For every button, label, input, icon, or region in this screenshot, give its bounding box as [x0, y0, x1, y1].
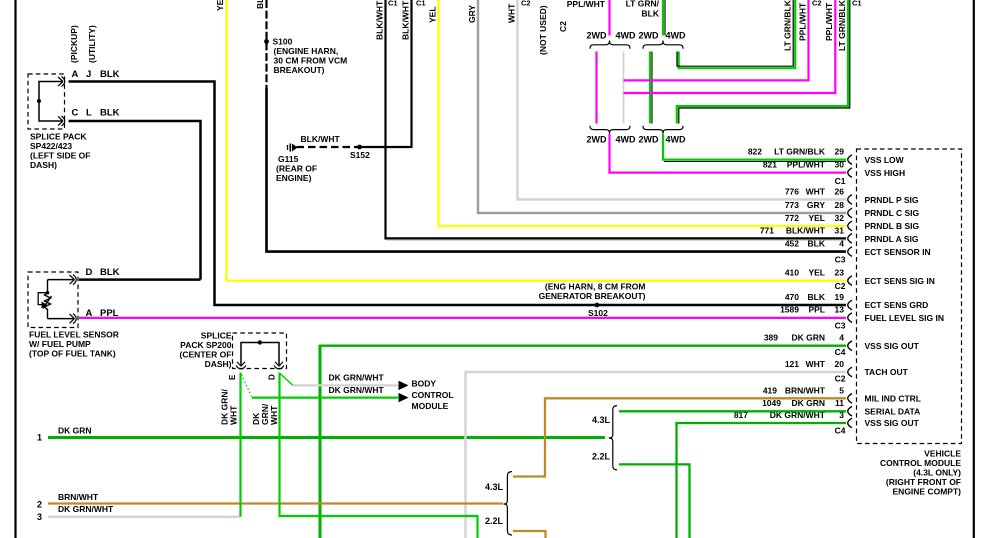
svg-text:J: J: [86, 69, 91, 80]
svg-text:4WD: 4WD: [616, 31, 637, 41]
wire BRN/WHT row 2: [48, 502, 503, 504]
wire BLK fuel D: [79, 278, 201, 281]
wire LT GRN/BLK 4WD lower elbow: [677, 0, 848, 124]
svg-text:4: 4: [839, 333, 844, 343]
svg-text:LT GRN/BLK: LT GRN/BLK: [774, 147, 826, 157]
svg-text:E: E: [228, 374, 237, 380]
svg-text:DK GRN: DK GRN: [791, 333, 825, 343]
arrow to BCM 1: [399, 381, 409, 390]
svg-text:4.3L: 4.3L: [592, 415, 611, 425]
wire BRN/WHT 2.2L branch: [513, 531, 546, 538]
pin 23 connector arc: [848, 276, 852, 286]
svg-text:470: 470: [785, 292, 799, 302]
svg-text:GRY: GRY: [467, 5, 477, 23]
svg-text:YEL: YEL: [215, 0, 225, 11]
svg-text:BLK: BLK: [255, 0, 265, 9]
svg-text:(UTILITY): (UTILITY): [87, 25, 97, 63]
wire PPL/WHT to pin 30: [610, 134, 847, 173]
svg-text:PPL/WHT: PPL/WHT: [798, 2, 808, 41]
svg-text:BLK: BLK: [808, 292, 826, 302]
svg-text:(TOP OF FUEL TANK): (TOP OF FUEL TANK): [29, 349, 116, 359]
wire PPL/WHT 2WD vertical: [595, 52, 597, 124]
svg-text:LT GRN/: LT GRN/: [626, 0, 660, 9]
brace 4.3L/2.2L left: [504, 472, 512, 536]
wire BRN/WHT to pin 5 MIL: [513, 398, 846, 476]
svg-text:C1: C1: [416, 0, 426, 8]
pin 19 connector arc: [848, 300, 852, 310]
svg-text:GRY: GRY: [807, 200, 825, 210]
svg-text:WHT: WHT: [269, 405, 279, 425]
wire DK GRN/WHT D vertical: [280, 373, 478, 538]
svg-text:S100: S100: [273, 37, 293, 47]
svg-text:TACH OUT: TACH OUT: [865, 367, 909, 377]
wire PPL fuel A to pin 13: [79, 317, 846, 319]
svg-text:ECT SENS SIG IN: ECT SENS SIG IN: [865, 276, 935, 286]
wire right harness border: [973, 0, 975, 538]
svg-text:WHT: WHT: [806, 359, 826, 369]
svg-text:WHT: WHT: [507, 3, 517, 23]
svg-text:DK GRN/WHT: DK GRN/WHT: [58, 504, 114, 514]
svg-text:4WD: 4WD: [666, 135, 687, 145]
svg-text:121: 121: [785, 359, 799, 369]
pin 32 connector arc: [848, 221, 852, 231]
svg-text:C: C: [72, 108, 79, 119]
wire BLK/WHT 1 to pin 31: [386, 0, 847, 238]
svg-text:4WD: 4WD: [616, 135, 637, 145]
svg-text:C1: C1: [388, 0, 398, 8]
svg-text:822: 822: [748, 147, 762, 157]
svg-text:LT GRN/BLK: LT GRN/BLK: [837, 0, 847, 51]
wire BLK/WHT 2 to S152: [360, 0, 412, 147]
svg-text:VSS SIG OUT: VSS SIG OUT: [865, 418, 920, 428]
svg-text:30: 30: [835, 160, 845, 170]
pin 13 connector arc: [848, 313, 852, 323]
svg-text:2WD: 2WD: [587, 31, 608, 41]
pin 4 connector arc: [848, 341, 852, 351]
fuel sensor wiper arrow: [43, 296, 52, 309]
svg-text:BLK/WHT: BLK/WHT: [786, 225, 826, 235]
svg-text:PPL: PPL: [808, 305, 825, 315]
fuel sensor wiper loop: [38, 293, 47, 305]
svg-text:32: 32: [835, 213, 845, 223]
svg-text:BLK/WHT: BLK/WHT: [375, 0, 385, 40]
svg-text:BODY: BODY: [412, 379, 437, 389]
node S100: [264, 39, 269, 44]
connector fuel A: [70, 314, 75, 323]
svg-text:19: 19: [835, 292, 845, 302]
fuel sensor resistor: [45, 280, 51, 319]
connector fuel D: [70, 275, 75, 284]
wire DK GRN/WHT to pin 3: [677, 423, 847, 538]
svg-text:VSS HIGH: VSS HIGH: [865, 168, 906, 178]
svg-text:WHT: WHT: [229, 405, 239, 425]
wire DK GRN/WHT E vertical: [239, 373, 241, 517]
svg-text:BLK: BLK: [100, 108, 120, 119]
pin 29 connector arc: [848, 155, 852, 165]
svg-text:419: 419: [763, 385, 777, 395]
svg-text:771: 771: [760, 225, 774, 235]
wire WHT 4WD vertical: [623, 52, 625, 124]
pin 30 connector arc: [848, 168, 852, 178]
svg-text:ECT SENSOR IN: ECT SENSOR IN: [865, 247, 931, 257]
wire DK GRN to pin 11 SERIAL DATA: [619, 410, 846, 412]
svg-text:30 CM FROM VCM: 30 CM FROM VCM: [274, 56, 348, 66]
svg-text:C2: C2: [812, 0, 822, 8]
svg-text:BLK: BLK: [642, 9, 660, 19]
svg-text:SPLICE PACK: SPLICE PACK: [30, 132, 87, 142]
brace bottom right: [643, 126, 683, 134]
svg-text:C3: C3: [835, 255, 846, 265]
svg-text:13: 13: [835, 305, 845, 315]
svg-text:2: 2: [37, 500, 42, 510]
splice pack SP200 box: [233, 333, 287, 369]
wire DK GRN to pin 4 VSS SIG OUT: [320, 345, 846, 347]
svg-text:(LEFT SIDE OF: (LEFT SIDE OF: [30, 151, 90, 161]
splice pack SP422 box: [28, 74, 65, 129]
svg-text:29: 29: [835, 147, 845, 157]
svg-text:C1: C1: [835, 176, 846, 186]
svg-text:23: 23: [835, 268, 845, 278]
svg-text:PRNDL B SIG: PRNDL B SIG: [865, 221, 920, 231]
svg-text:C4: C4: [835, 426, 846, 436]
wire LT GRN/BLK from top: [662, 0, 664, 36]
svg-text:2WD: 2WD: [587, 135, 608, 145]
wire WHT to pin 20 TACH OUT: [466, 372, 847, 538]
svg-text:772: 772: [785, 213, 799, 223]
svg-text:BLK/WHT: BLK/WHT: [301, 134, 341, 144]
svg-text:2.2L: 2.2L: [485, 516, 504, 526]
svg-text:(4.3L ONLY): (4.3L ONLY): [913, 468, 961, 478]
wire BLK C/L to fuel sender: [69, 121, 201, 280]
svg-text:PPL/WHT: PPL/WHT: [787, 160, 826, 170]
fuel sensor top lead: [48, 279, 75, 281]
svg-text:773: 773: [785, 200, 799, 210]
splice pack SP422 bus: [39, 82, 63, 122]
connector SP200 D: [275, 362, 283, 366]
vehicle control module VCM box: [857, 149, 962, 444]
svg-text:DASH): DASH): [205, 359, 232, 369]
svg-text:(ENGINE HARN,: (ENGINE HARN,: [274, 46, 339, 56]
svg-text:C2: C2: [558, 21, 568, 32]
svg-text:L: L: [86, 108, 92, 119]
svg-text:BRN/WHT: BRN/WHT: [58, 492, 99, 502]
svg-text:5: 5: [839, 385, 844, 395]
svg-text:BLK: BLK: [808, 239, 826, 249]
svg-text:PPL/WHT: PPL/WHT: [824, 2, 834, 41]
brace top right: [643, 41, 683, 49]
svg-text:20: 20: [835, 359, 845, 369]
pin 26 connector arc: [848, 195, 852, 205]
pin 31 connector arc: [848, 234, 852, 244]
svg-text:PRNDL C SIG: PRNDL C SIG: [865, 208, 920, 218]
wire GRY to pin 28: [478, 0, 846, 213]
svg-text:YEL: YEL: [808, 213, 825, 223]
wire E dotted tap: [242, 375, 252, 397]
wire WHT to pin 26: [518, 0, 847, 200]
wire DK GRN/WHT to BCM 1: [293, 384, 398, 386]
svg-text:C3: C3: [835, 321, 846, 331]
svg-text:C2: C2: [521, 0, 531, 8]
pin 28 connector arc: [848, 208, 852, 218]
svg-text:MODULE: MODULE: [412, 401, 449, 411]
ground G115: [287, 145, 289, 150]
svg-text:A: A: [72, 69, 79, 80]
svg-text:DASH): DASH): [30, 160, 57, 170]
svg-text:G115: G115: [278, 154, 299, 164]
svg-text:452: 452: [785, 239, 799, 249]
node fuel sensor top: [46, 291, 50, 295]
svg-text:ECT SENS GRD: ECT SENS GRD: [865, 300, 929, 310]
wire DK GRN 2.2L branch: [619, 464, 690, 538]
wire PPL/WHT right 1: [624, 0, 809, 80]
brace top left: [590, 41, 630, 49]
wire D diagonal tap: [280, 374, 293, 386]
svg-text:C2: C2: [835, 281, 846, 291]
wire BLK S100 to pin 4: [267, 88, 847, 252]
svg-text:4.3L: 4.3L: [485, 482, 504, 492]
svg-text:C4: C4: [835, 347, 846, 357]
splice pack SP200 bus: [241, 343, 279, 366]
svg-text:WHT: WHT: [806, 187, 826, 197]
svg-text:YEL: YEL: [808, 268, 825, 278]
svg-text:1: 1: [37, 433, 42, 443]
svg-text:SP422/423: SP422/423: [30, 141, 72, 151]
svg-text:D: D: [86, 267, 93, 278]
svg-text:(PICKUP): (PICKUP): [69, 25, 79, 63]
svg-text:CONTROL MODULE: CONTROL MODULE: [880, 458, 961, 468]
svg-text:(NOT USED): (NOT USED): [538, 5, 548, 55]
svg-text:D: D: [268, 374, 277, 380]
svg-text:DK GRN: DK GRN: [791, 398, 825, 408]
wire BLK/WHT dashed to G115: [297, 146, 360, 148]
svg-text:ENGINE): ENGINE): [276, 173, 312, 183]
brace bottom left: [590, 126, 630, 134]
wire DK GRN/WHT to BCM 2: [252, 397, 398, 399]
svg-text:2.2L: 2.2L: [592, 452, 611, 462]
arrow to BCM 2: [399, 393, 409, 402]
svg-text:389: 389: [764, 333, 778, 343]
wire LT GRN/BLK 4WD upper elbow: [679, 0, 796, 68]
pin 4 connector arc: [848, 247, 852, 257]
svg-text:C1: C1: [852, 0, 862, 8]
pin 20 connector arc: [848, 367, 852, 377]
wire PPL/WHT right 2: [624, 0, 836, 93]
node S102: [595, 303, 600, 308]
node S152: [357, 145, 362, 150]
svg-text:26: 26: [835, 187, 845, 197]
svg-text:BRN/WHT: BRN/WHT: [785, 385, 826, 395]
svg-text:ENGINE COMPT): ENGINE COMPT): [893, 487, 962, 497]
svg-text:11: 11: [835, 398, 844, 408]
svg-text:BLK/WHT: BLK/WHT: [401, 0, 411, 40]
svg-text:3: 3: [37, 512, 42, 522]
wire LT GRN 2WD vertical: [649, 52, 651, 124]
svg-text:DK GRN/WHT: DK GRN/WHT: [329, 373, 385, 383]
svg-text:GENERATOR BREAKOUT): GENERATOR BREAKOUT): [539, 291, 646, 301]
svg-text:VEHICLE: VEHICLE: [924, 449, 961, 459]
wire YEL from instrument cluster: [227, 0, 847, 281]
svg-text:VSS LOW: VSS LOW: [865, 155, 905, 165]
svg-text:776: 776: [785, 187, 799, 197]
svg-text:FUEL LEVEL SENSOR: FUEL LEVEL SENSOR: [29, 330, 119, 340]
svg-text:4: 4: [839, 239, 844, 249]
svg-text:S152: S152: [350, 150, 370, 160]
svg-text:FUEL LEVEL SIG IN: FUEL LEVEL SIG IN: [865, 313, 945, 323]
svg-text:2WD: 2WD: [639, 135, 660, 145]
svg-text:PACK SP200: PACK SP200: [180, 340, 232, 350]
svg-text:C2: C2: [835, 374, 846, 384]
svg-text:(REAR OF: (REAR OF: [276, 164, 317, 174]
wire BLK/WHT 1 white stripe: [387, 239, 846, 241]
wire BLK dashed to S100: [265, 0, 267, 88]
wire DK GRN vertical main: [319, 345, 322, 538]
svg-text:MIL IND CTRL: MIL IND CTRL: [865, 393, 922, 403]
connector SP422 A: [58, 77, 63, 86]
fuel sensor bottom lead: [48, 318, 75, 320]
brace 4.3L/2.2L center: [609, 406, 617, 471]
svg-text:2WD: 2WD: [639, 31, 660, 41]
svg-text:(CENTER OF: (CENTER OF: [180, 350, 232, 360]
svg-text:821: 821: [763, 160, 777, 170]
wire PPL/WHT from top: [608, 0, 610, 36]
wire DK GRN/WHT row 3: [48, 516, 240, 518]
svg-text:SPLICE: SPLICE: [201, 331, 232, 341]
svg-text:DK GRN/WHT: DK GRN/WHT: [329, 385, 385, 395]
svg-text:BREAKOUT): BREAKOUT): [274, 65, 325, 75]
svg-text:4WD: 4WD: [666, 31, 687, 41]
svg-text:SERIAL DATA: SERIAL DATA: [865, 406, 921, 416]
svg-text:DK GRN: DK GRN: [58, 426, 92, 436]
svg-text:410: 410: [785, 268, 799, 278]
svg-text:1049: 1049: [762, 398, 781, 408]
node SP422 splice: [37, 99, 41, 103]
pin 11 connector arc: [848, 406, 852, 416]
svg-text:PPL/WHT: PPL/WHT: [567, 0, 606, 9]
svg-text:S102: S102: [588, 308, 608, 318]
svg-text:1589: 1589: [780, 305, 799, 315]
svg-text:BLK: BLK: [100, 267, 120, 278]
node SP200 splice: [258, 340, 262, 344]
pin 3 connector arc: [848, 418, 852, 428]
svg-text:(RIGHT FRONT OF: (RIGHT FRONT OF: [886, 477, 961, 487]
wire LT GRN/BLK to pin 29: [663, 134, 846, 160]
wire BLK A/J to S102 pin 19: [69, 82, 847, 306]
svg-text:PRNDL P SIG: PRNDL P SIG: [865, 195, 919, 205]
connector SP200 E: [237, 362, 245, 366]
pin 5 connector arc: [848, 394, 852, 404]
svg-text:(ENG HARN, 8 CM FROM: (ENG HARN, 8 CM FROM: [545, 281, 646, 291]
connector SP422 C: [58, 116, 63, 125]
svg-text:W/ FUEL PUMP: W/ FUEL PUMP: [29, 339, 91, 349]
wire YEL 2 to pin 32: [439, 0, 847, 226]
fuel level sensor box: [28, 272, 78, 328]
svg-text:PRNDL A SIG: PRNDL A SIG: [865, 234, 919, 244]
svg-text:BLK: BLK: [100, 69, 120, 80]
svg-text:LT GRN/BLK: LT GRN/BLK: [783, 0, 793, 51]
wire left harness border: [14, 0, 16, 538]
svg-text:YEL: YEL: [428, 6, 438, 23]
svg-text:28: 28: [835, 200, 845, 210]
svg-text:VSS SIG OUT: VSS SIG OUT: [865, 341, 920, 351]
svg-text:31: 31: [835, 225, 845, 235]
wire DK GRN row 1: [48, 436, 605, 439]
svg-text:CONTROL: CONTROL: [412, 390, 454, 400]
